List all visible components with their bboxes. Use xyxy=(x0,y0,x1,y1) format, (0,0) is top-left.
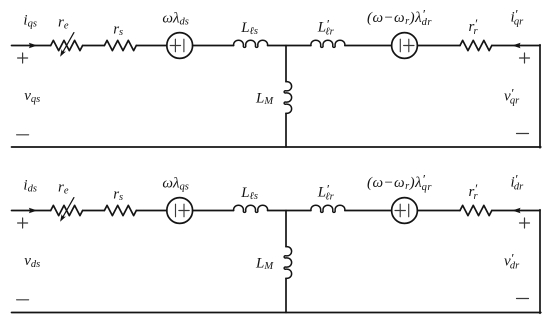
wire Rs to source 1 xyxy=(136,45,167,47)
plus sign right port xyxy=(520,218,530,228)
voltage source w.lambda_qs (d-axis circuit) xyxy=(167,198,193,224)
minus sign right port xyxy=(517,298,529,300)
resistor Rr' (d-axis circuit) xyxy=(460,205,492,215)
variable-resistor arrow through Re (q-axis circuit) xyxy=(60,33,74,57)
svg-text:ωλqs: ωλqs xyxy=(162,176,188,193)
svg-text:LM: LM xyxy=(255,255,274,272)
wire source 2 to Rr xyxy=(417,210,460,212)
svg-text:L′ℓr: L′ℓr xyxy=(317,181,335,202)
minus sign right port xyxy=(517,133,529,135)
voltage source w.lambda_ds (q-axis circuit) xyxy=(167,33,193,59)
inductor LM magnetizing (q-axis circuit) xyxy=(284,82,292,114)
wire source 1 to Lls xyxy=(193,210,234,212)
minus sign left port xyxy=(17,134,29,136)
polarity marks of source 1 xyxy=(170,39,184,52)
svg-text:(ω−ωr)λ′qr: (ω−ωr)λ′qr xyxy=(367,172,432,193)
variable-resistor arrow through Re (d-axis circuit) xyxy=(60,198,74,222)
wire Llr to source 2 xyxy=(345,210,392,212)
current arrow ids (pointing right) xyxy=(29,208,38,214)
wire: q-axis circuit left input lead xyxy=(12,45,51,47)
plus sign left port xyxy=(18,53,28,63)
svg-text:i′dr: i′dr xyxy=(511,171,525,192)
resistor Re (d-axis circuit) xyxy=(51,205,83,215)
current arrow idr' (pointing left) xyxy=(512,208,521,214)
resistor Re (q-axis circuit) xyxy=(51,40,83,50)
current arrow iqs (pointing right) xyxy=(29,43,38,49)
svg-text:r′r: r′r xyxy=(469,16,479,37)
resistor Rs (d-axis circuit) xyxy=(104,205,136,215)
plus sign left port xyxy=(18,218,28,228)
wire source 1 to Lls xyxy=(193,45,234,47)
voltage source (w-wr).lambda_qr (d-axis circuit) xyxy=(392,198,418,224)
wire source 2 to Rr xyxy=(417,45,460,47)
inductor LM magnetizing (d-axis circuit) xyxy=(284,247,292,279)
minus sign left port xyxy=(17,299,29,301)
wire Llr to source 2 xyxy=(345,45,392,47)
svg-text:rs: rs xyxy=(113,21,123,38)
polarity marks of source 2 xyxy=(395,204,409,217)
svg-text:v′qr: v′qr xyxy=(504,85,520,106)
wire: magnetizing branch lower segment xyxy=(285,113,287,147)
svg-text:rs: rs xyxy=(113,186,123,203)
wire: magnetizing branch lower segment xyxy=(285,278,287,312)
svg-text:v′dr: v′dr xyxy=(504,250,520,271)
polarity marks of source 1 xyxy=(176,204,190,217)
resistor Rs (q-axis circuit) xyxy=(104,40,136,50)
current arrow iqr' (pointing left) xyxy=(512,43,521,49)
svg-text:i′qr: i′qr xyxy=(511,6,525,27)
svg-text:Lℓs: Lℓs xyxy=(240,185,258,202)
wire Lls to Llr through magnetizing node xyxy=(268,45,311,47)
svg-text:ωλds: ωλds xyxy=(162,11,188,28)
svg-text:r′r: r′r xyxy=(469,181,479,202)
resistor Rr' (q-axis circuit) xyxy=(460,40,492,50)
wire Rr to right corner xyxy=(492,210,540,212)
svg-text:vds: vds xyxy=(24,253,40,270)
inductor Llr' (q-axis circuit) xyxy=(311,40,345,47)
svg-text:(ω−ωr)λ′dr: (ω−ωr)λ′dr xyxy=(367,7,432,28)
wire Rs to source 1 xyxy=(136,210,167,212)
wire: bottom rail xyxy=(12,312,541,314)
svg-text:L′ℓr: L′ℓr xyxy=(317,16,335,37)
wire: bottom rail xyxy=(12,146,541,148)
wire Re to Rs xyxy=(83,210,105,212)
svg-text:re: re xyxy=(58,14,69,31)
wire Lls to Llr through magnetizing node xyxy=(268,210,311,212)
svg-text:LM: LM xyxy=(255,90,274,107)
wire Rr to right corner xyxy=(492,45,540,47)
svg-text:re: re xyxy=(58,179,69,196)
svg-text:vqs: vqs xyxy=(24,88,40,105)
svg-text:ids: ids xyxy=(23,178,37,195)
svg-text:iqs: iqs xyxy=(23,13,37,30)
voltage source (w-wr).lambda_dr (q-axis circuit) xyxy=(392,33,418,59)
svg-text:Lℓs: Lℓs xyxy=(240,20,258,37)
wire: right vertical side xyxy=(539,45,541,148)
inductor Llr' (d-axis circuit) xyxy=(311,205,345,212)
wire Re to Rs xyxy=(83,45,105,47)
inductor Lls (d-axis circuit) xyxy=(234,205,268,212)
wire: magnetizing branch upper segment xyxy=(285,211,287,247)
wire: right vertical side xyxy=(539,210,541,314)
wire: magnetizing branch upper segment xyxy=(285,46,287,82)
plus sign right port xyxy=(520,53,530,63)
polarity marks of source 2 xyxy=(400,39,414,52)
wire: d-axis circuit left input lead xyxy=(12,210,51,212)
inductor Lls (q-axis circuit) xyxy=(234,40,268,47)
